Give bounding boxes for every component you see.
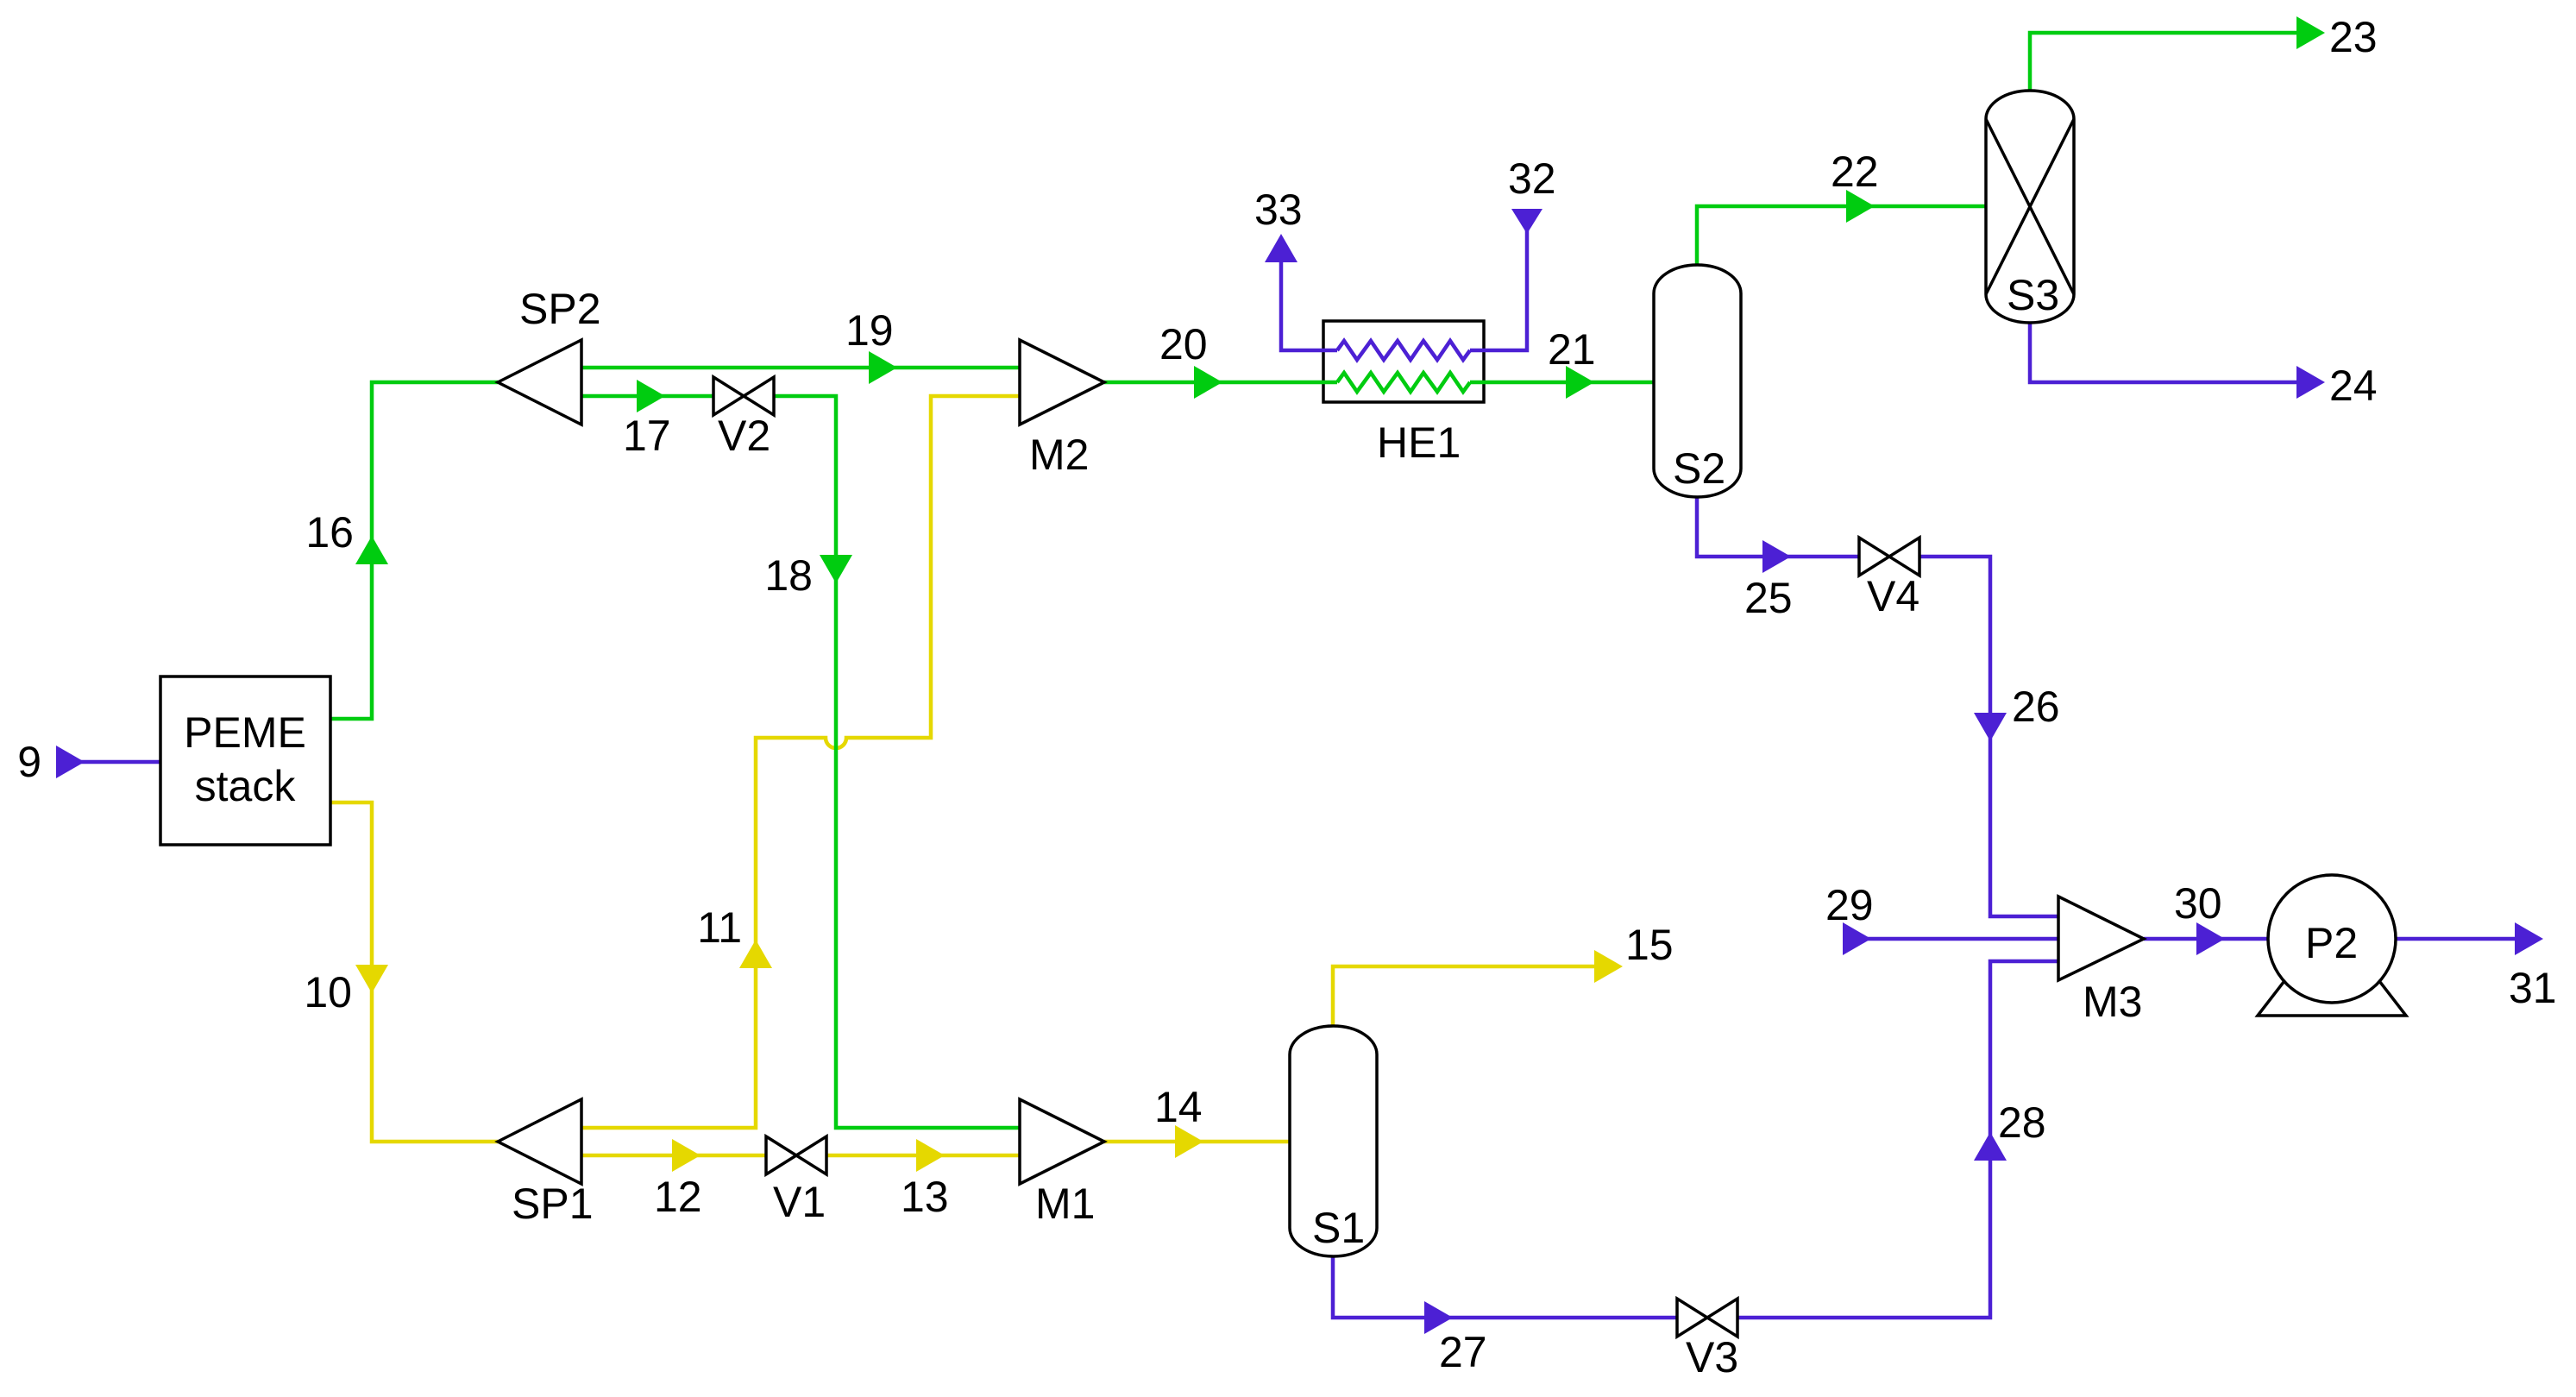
- svg-text:29: 29: [1825, 881, 1874, 929]
- svg-text:10: 10: [304, 968, 352, 1016]
- separator S3 cross lines: [1986, 119, 2074, 294]
- wire stream 33 (HE1 hot water out): [1281, 259, 1337, 350]
- arrow 20: [1194, 366, 1222, 399]
- separator S2: [1654, 265, 1741, 497]
- svg-text:12: 12: [654, 1173, 702, 1221]
- HE1 hot coil zigzag purple: [1337, 341, 1470, 360]
- arrow 27: [1424, 1301, 1453, 1334]
- wire stream 17 (SP2 to V2): [581, 394, 713, 399]
- svg-text:S1: S1: [1312, 1204, 1365, 1252]
- wire stream 16 (PEME to SP2): [330, 382, 498, 719]
- svg-text:30: 30: [2174, 879, 2222, 928]
- wire stream 14 (M1 to S1): [1104, 1140, 1290, 1144]
- wire stream 18 (V2 to M1): [775, 396, 1020, 1128]
- svg-text:23: 23: [2329, 13, 2378, 61]
- wire stream 25 (S2 to V4): [1697, 497, 1858, 557]
- svg-text:22: 22: [1831, 148, 1879, 196]
- arrow 13: [916, 1139, 945, 1172]
- arrow 14: [1175, 1125, 1203, 1158]
- arrow 23: [2296, 16, 2325, 49]
- wire stream 26 (V4 to M3): [1920, 557, 2058, 916]
- arrow 17: [637, 380, 665, 412]
- wire stream 22 (S2 to S3): [1697, 206, 1986, 265]
- wire stream 20 (M2 to HE1): [1104, 381, 1337, 385]
- svg-text:25: 25: [1744, 574, 1793, 622]
- svg-text:V2: V2: [718, 412, 770, 460]
- svg-text:32: 32: [1508, 154, 1556, 203]
- svg-text:21: 21: [1548, 325, 1596, 374]
- wire stream 32 (HE1 hot water in): [1470, 211, 1527, 350]
- valve V3: [1677, 1299, 1737, 1337]
- wire stream 12 (SP1 to V1): [581, 1154, 766, 1158]
- arrow 21: [1566, 366, 1594, 399]
- mixer M2: [1020, 340, 1104, 425]
- HE1 cold coil zigzag green: [1337, 373, 1470, 392]
- svg-text:16: 16: [305, 508, 354, 557]
- svg-text:18: 18: [764, 551, 813, 600]
- arrow 18: [820, 555, 852, 583]
- svg-text:27: 27: [1439, 1328, 1487, 1376]
- wire stream 10 (PEME to SP1): [330, 802, 498, 1142]
- svg-text:V3: V3: [1686, 1333, 1738, 1381]
- splitter SP1: [498, 1099, 581, 1184]
- mixer M3: [2058, 897, 2144, 980]
- svg-text:P2: P2: [2305, 919, 2358, 967]
- arrow 33: [1265, 234, 1297, 262]
- wire stream 15 (S1 top outlet): [1333, 966, 1594, 1026]
- svg-text:24: 24: [2329, 362, 2378, 410]
- arrow 31: [2515, 922, 2543, 955]
- svg-text:33: 33: [1254, 186, 1303, 234]
- svg-text:stack: stack: [195, 762, 297, 810]
- svg-text:14: 14: [1154, 1083, 1203, 1131]
- svg-text:V4: V4: [1867, 572, 1919, 620]
- arrow 19: [869, 351, 897, 384]
- wire stream 24 (S3 bottom outlet): [2030, 323, 2296, 382]
- mixer M1: [1020, 1099, 1104, 1184]
- heat exchanger HE1 body: [1323, 321, 1484, 402]
- pump P2 stand: [2258, 978, 2406, 1016]
- splitter SP2: [498, 340, 581, 425]
- arrow 28: [1974, 1132, 2007, 1161]
- arrow 10: [355, 965, 388, 993]
- svg-text:HE1: HE1: [1377, 418, 1461, 467]
- wire stream 13 (V1 to M1): [826, 1154, 1020, 1158]
- svg-text:V1: V1: [773, 1178, 826, 1226]
- svg-text:S3: S3: [2007, 271, 2059, 319]
- arrow 11: [739, 940, 772, 968]
- wire stream 31 (P2 outlet): [2396, 937, 2515, 941]
- svg-text:9: 9: [17, 738, 41, 786]
- svg-text:PEME: PEME: [184, 708, 306, 757]
- svg-text:17: 17: [623, 412, 671, 460]
- wire stream 9 (feed to PEME): [56, 760, 160, 765]
- arrow 22: [1846, 190, 1875, 223]
- arrow 32: [1511, 209, 1542, 234]
- svg-text:11: 11: [697, 903, 742, 952]
- svg-text:SP2: SP2: [519, 285, 601, 333]
- svg-text:13: 13: [901, 1173, 949, 1221]
- valve V2: [713, 377, 774, 415]
- wire stream 27 (S1 to V3): [1333, 1256, 1677, 1318]
- separator S1: [1290, 1026, 1377, 1256]
- svg-text:31: 31: [2509, 964, 2557, 1012]
- pump P2 body: [2268, 875, 2396, 1003]
- svg-text:15: 15: [1625, 921, 1674, 969]
- svg-text:M1: M1: [1035, 1180, 1095, 1228]
- arrow 15: [1594, 950, 1623, 983]
- svg-text:M3: M3: [2083, 978, 2142, 1026]
- arrow 12: [672, 1139, 701, 1172]
- wire stream 29 (feed to M3): [1844, 937, 2058, 941]
- svg-text:26: 26: [2012, 683, 2060, 731]
- valve V1: [766, 1136, 826, 1174]
- svg-text:S2: S2: [1673, 444, 1725, 493]
- wire stream 30 (M3 to P2): [2144, 937, 2267, 941]
- arrow 29: [1843, 922, 1871, 955]
- wire stream 23 (S3 top outlet): [2030, 33, 2296, 91]
- arrow 26: [1974, 713, 2007, 741]
- separator S3: [1986, 91, 2074, 323]
- wire stream 21 (HE1 to S2): [1470, 381, 1654, 385]
- wire stream 11 (SP1 to M2, with hop over stream 18): [581, 396, 1020, 1128]
- wire stream 28 (V3 to M3): [1737, 961, 2058, 1318]
- svg-text:19: 19: [845, 306, 894, 355]
- arrow 30: [2196, 922, 2225, 955]
- arrow 24: [2296, 366, 2325, 399]
- svg-text:M2: M2: [1029, 431, 1089, 479]
- wire stream 19 (SP2 to M2): [581, 366, 1020, 370]
- svg-text:SP1: SP1: [512, 1180, 594, 1228]
- svg-text:20: 20: [1159, 320, 1208, 368]
- valve V4: [1859, 538, 1919, 576]
- svg-text:28: 28: [1998, 1098, 2046, 1147]
- arrow 16: [355, 536, 388, 564]
- arrow 9: [56, 746, 85, 778]
- arrow 25: [1762, 540, 1791, 573]
- PEME stack box: [160, 676, 330, 845]
